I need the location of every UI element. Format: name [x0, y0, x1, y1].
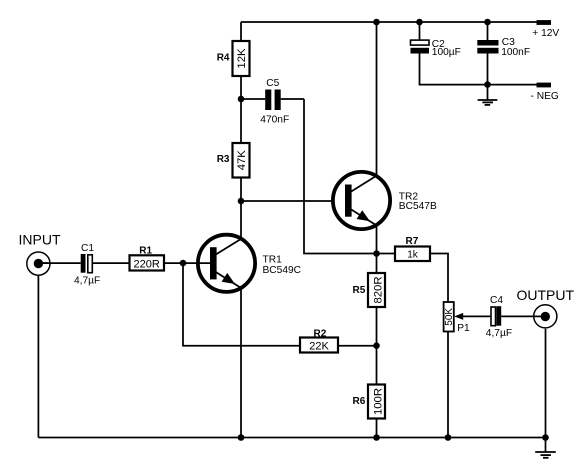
resistor R6 [368, 385, 385, 419]
wire TR1 emitter lead [240, 288, 242, 438]
wire R5 bottom lead [376, 307, 378, 346]
wire top +12V rail [241, 21, 537, 23]
resistor R7 [395, 247, 430, 262]
resistor R5 [368, 273, 385, 307]
connector INPUT [27, 252, 51, 275]
svg-text:C5: C5 [266, 78, 279, 89]
transistor TR1 [198, 235, 255, 292]
svg-text:C4: C4 [490, 295, 503, 306]
svg-text:47K: 47K [236, 150, 248, 171]
wire R2 right lead [338, 345, 377, 347]
wire C5 to TR2 emitter node [304, 99, 377, 254]
svg-text:OUTPUT: OUTPUT [517, 287, 575, 303]
svg-text:R7: R7 [406, 236, 419, 247]
svg-text:1k: 1k [407, 250, 419, 261]
wire TR2 base [241, 200, 345, 202]
svg-text:220R: 220R [134, 259, 160, 271]
wire emitter node to R7 [377, 253, 396, 255]
svg-text:R2: R2 [314, 328, 327, 339]
capacitor C4 [491, 306, 545, 326]
svg-text:470nF: 470nF [260, 115, 289, 126]
capacitor C5 [241, 90, 304, 111]
svg-text:50K: 50K [444, 308, 455, 326]
resistor R2 [300, 338, 338, 353]
svg-text:+ 12V: + 12V [532, 28, 559, 39]
svg-text:C3: C3 [502, 37, 515, 48]
svg-text:100R: 100R [372, 388, 384, 415]
terminal +12V [537, 20, 552, 25]
wire bottom rail [38, 437, 545, 439]
wire P1 wiper to C4 [461, 315, 491, 317]
svg-text:R3: R3 [217, 154, 230, 165]
node TR1 base junction [180, 260, 187, 267]
resistor R3 [233, 143, 250, 178]
node TR2 emitter junction [373, 250, 380, 257]
ground under OUTPUT [535, 438, 556, 458]
wire INPUT stem [37, 276, 39, 438]
node R5/R2/R6 junction [373, 342, 380, 349]
node TR1 emitter on rail [238, 434, 245, 441]
node C3 bottom junction [484, 81, 491, 88]
connector OUTPUT [534, 305, 557, 328]
capacitor C3 [477, 19, 498, 85]
node R6 on rail [373, 434, 380, 441]
node TR1 collector / TR2 base junction [238, 198, 245, 205]
transistor TR2 [333, 172, 390, 229]
svg-text:BC549C: BC549C [263, 265, 302, 276]
svg-text:P1: P1 [457, 323, 470, 334]
capacitor C2 [411, 19, 488, 85]
ground under C3 [478, 85, 498, 105]
svg-text:4,7µF: 4,7µF [486, 328, 512, 339]
wire TR1 collector lead [240, 201, 242, 239]
node TR2 collector on rail [373, 19, 380, 26]
svg-text:4,7µF: 4,7µF [74, 275, 100, 286]
wire R4 top lead [240, 22, 242, 41]
svg-text:C1: C1 [81, 243, 94, 254]
wire R7 to P1 [430, 254, 448, 303]
wire R1 to TR1 base [164, 262, 210, 264]
wire R5 top lead [376, 254, 378, 274]
wire R6 top lead [376, 346, 378, 385]
terminal -NEG [537, 83, 552, 88]
wire R4 bottom lead [240, 76, 242, 99]
svg-text:R5: R5 [353, 285, 366, 296]
wire to NEG terminal [488, 84, 537, 86]
node P1 on rail [445, 434, 452, 441]
wire R3 top lead [240, 99, 242, 143]
node R4/R3/C5 junction [238, 96, 245, 103]
capacitor C1 [81, 254, 130, 273]
resistor R4 [233, 41, 250, 76]
wire TR2 collector lead [376, 22, 378, 176]
wire INPUT to C1 [38, 262, 80, 264]
svg-text:12K: 12K [236, 48, 248, 69]
wire R3 bottom lead [240, 178, 242, 202]
potentiometer P1 [444, 302, 464, 332]
wire R2 to TR1 base node [183, 263, 300, 346]
svg-text:22K: 22K [309, 341, 329, 353]
svg-text:BC547B: BC547B [399, 201, 437, 212]
svg-text:- NEG: - NEG [531, 91, 559, 102]
svg-text:R6: R6 [353, 396, 366, 407]
svg-text:100µF: 100µF [432, 47, 461, 58]
svg-text:INPUT: INPUT [19, 232, 61, 248]
svg-text:R4: R4 [217, 53, 230, 64]
svg-text:100nF: 100nF [501, 47, 530, 58]
svg-text:820R: 820R [372, 276, 384, 303]
resistor R1 [130, 255, 165, 270]
svg-text:R1: R1 [139, 245, 152, 256]
node OUTPUT on rail [542, 434, 549, 441]
wire OUTPUT stem [545, 329, 547, 438]
wire P1 bottom lead [447, 332, 449, 438]
wire R6 bottom lead [376, 419, 378, 438]
wire TR2 emitter lead [376, 225, 378, 254]
